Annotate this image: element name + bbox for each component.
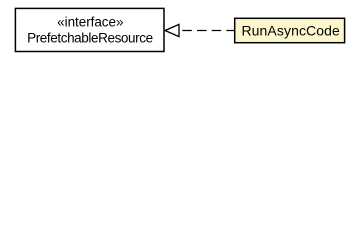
highlighted class box RunAsyncCode: [235, 18, 345, 42]
svg-text:RunAsyncCode: RunAsyncCode: [241, 23, 340, 39]
interface class box PrefetchableResource: [15, 8, 164, 51]
realization arrowhead (hollow triangle): [165, 24, 179, 36]
svg-text:«interface»: «interface»: [57, 14, 123, 29]
dashed realization line: [182, 30, 234, 32]
svg-text:PrefetchableResource: PrefetchableResource: [27, 30, 153, 45]
